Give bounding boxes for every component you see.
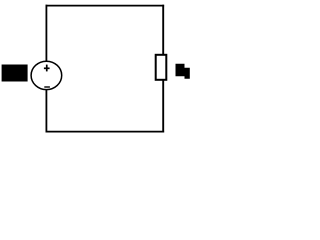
terminal block left bbox=[2, 65, 28, 82]
wire right lower bbox=[162, 80, 164, 133]
wire left lower bbox=[45, 89, 47, 132]
wire left upper bbox=[45, 5, 47, 62]
minus sign bbox=[44, 86, 50, 88]
wire top bbox=[46, 5, 165, 7]
voltage source V1 bbox=[31, 61, 62, 89]
resistor R1 bbox=[156, 55, 167, 80]
plus sign bbox=[44, 65, 50, 72]
wire right upper bbox=[162, 5, 164, 55]
terminal flag right bbox=[176, 64, 190, 79]
wire bottom bbox=[46, 131, 165, 133]
